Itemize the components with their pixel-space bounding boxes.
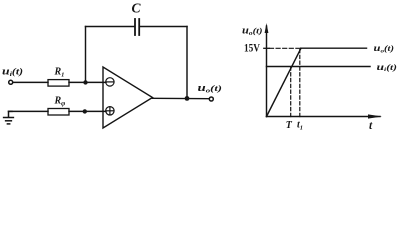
wire R2 to noninverting input <box>69 110 106 112</box>
op-amp inverting input circle (minus) <box>106 78 114 86</box>
wire input terminal to R1 <box>13 81 48 83</box>
svg-text:uo(t): uo(t) <box>242 26 263 38</box>
dashed vertical at t1 <box>299 48 301 116</box>
output terminal <box>209 97 213 101</box>
dashed 15V level line <box>270 47 302 49</box>
graph y-axis <box>265 23 269 117</box>
ramp u_o rising segment <box>267 48 302 116</box>
wire feedback top right <box>140 26 187 28</box>
svg-text:T: T <box>286 120 293 131</box>
svg-text:uo(t): uo(t) <box>374 44 395 54</box>
dashed vertical at T <box>290 67 292 117</box>
node inverting input junction <box>83 80 87 84</box>
tick 15V on y-axis <box>264 47 269 49</box>
wire feedback right vertical <box>186 27 188 99</box>
svg-text:ui(t): ui(t) <box>2 66 23 78</box>
svg-text:uo(t): uo(t) <box>198 83 223 95</box>
op-amp U1 triangle <box>103 67 153 128</box>
svg-text:C: C <box>132 1 142 16</box>
wire R1 to inverting input <box>69 81 106 83</box>
input terminal <box>9 80 13 84</box>
svg-text:ui(t): ui(t) <box>377 63 398 73</box>
node noninverting wire junction <box>83 109 87 113</box>
svg-text:Rφ: Rφ <box>54 96 66 108</box>
resistor R1 <box>48 80 69 87</box>
wire feedback left vertical <box>85 27 87 83</box>
ground <box>4 111 14 124</box>
graph x-axis <box>267 114 383 118</box>
wire ground to R2 <box>9 110 49 112</box>
svg-text:t: t <box>369 120 373 132</box>
svg-text:R1: R1 <box>54 67 65 79</box>
svg-text:15V: 15V <box>244 43 261 55</box>
op-amp noninverting input circle (plus) <box>106 107 114 115</box>
node output feedback junction <box>185 96 190 101</box>
svg-text:t1: t1 <box>297 120 303 132</box>
wire op-amp output <box>153 97 210 99</box>
wire feedback top left <box>86 26 135 28</box>
u_o saturation line <box>301 47 367 49</box>
u_i level line <box>267 66 371 68</box>
capacitor C <box>135 19 139 35</box>
resistor R2 <box>48 109 69 116</box>
